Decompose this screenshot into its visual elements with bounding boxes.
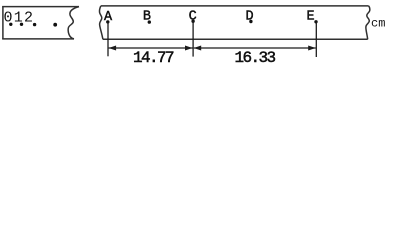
- wire bottom edge of strip: [103, 38, 368, 40]
- wire torn right edge of fragment: [68, 7, 79, 39]
- wire torn left edge of strip: [99, 6, 102, 39]
- wire top edge of fragment: [2, 6, 79, 8]
- svg-text:2: 2: [24, 10, 33, 27]
- main ruler strip edges: [99, 6, 369, 39]
- arrowhead left at A: [109, 46, 117, 51]
- node dot A: [106, 20, 109, 23]
- node lone dot on fragment: [53, 23, 57, 27]
- wire bottom edge of fragment: [2, 38, 74, 40]
- wire extension line from E: [315, 22, 317, 57]
- wire dimension line AC: [109, 47, 193, 49]
- node dot E: [314, 20, 317, 23]
- node dot C: [191, 20, 194, 23]
- ruler fragment left piece border: [2, 6, 79, 39]
- arrowhead left at C: [194, 46, 202, 51]
- wire torn right edge of strip: [366, 6, 370, 39]
- wire extension line from C: [192, 21, 194, 56]
- svg-text:16.33: 16.33: [234, 49, 275, 67]
- node dot D: [249, 20, 252, 23]
- node dot after 2: [33, 23, 36, 26]
- wire dimension line CE: [194, 47, 316, 49]
- arrowhead right at C: [185, 46, 193, 51]
- wire extension line from A: [107, 22, 109, 56]
- svg-text:E: E: [307, 9, 315, 24]
- node dot after 0: [9, 23, 12, 26]
- wire left border of fragment: [2, 6, 4, 39]
- node dot B: [148, 20, 151, 23]
- wire top edge of strip: [101, 5, 369, 7]
- arrowhead right at E: [308, 46, 316, 51]
- node dot after 1: [20, 23, 23, 26]
- svg-text:14.77: 14.77: [133, 49, 174, 67]
- svg-text:cm: cm: [371, 16, 385, 30]
